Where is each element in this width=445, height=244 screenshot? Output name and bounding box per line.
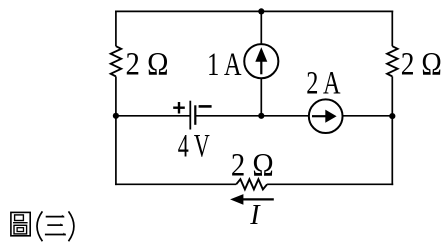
wire: left side upper segment: [115, 11, 117, 47]
svg-text:I: I: [249, 200, 261, 231]
current I arrow (pointing left, below bottom resistor): [230, 194, 274, 205]
svg-text:2 Ω: 2 Ω: [126, 47, 169, 83]
junction dot: top node: [258, 8, 264, 14]
caption: CJK character 三 (three) drawn as strokes: [45, 215, 66, 236]
caption: closing parenthesis: [69, 211, 74, 241]
wire: right side upper segment: [391, 11, 393, 47]
wire: middle rail center segment: [195, 115, 309, 117]
svg-text:1 A: 1 A: [207, 47, 242, 83]
wire: top side of outer loop: [115, 10, 393, 12]
resistor R3 (bottom, 2 ohm) zigzag: [236, 179, 267, 189]
wire: bottom side right segment: [267, 183, 393, 185]
wire: bottom side left segment: [115, 183, 236, 185]
current source I2 arrow (pointing right): [312, 110, 337, 123]
wire: 1A branch upper (from top rail to source): [260, 11, 262, 44]
wire: middle rail right segment: [342, 115, 392, 117]
battery V1 positive plate (long): [189, 101, 191, 130]
svg-text:2 Ω: 2 Ω: [401, 46, 442, 82]
current source I2 (2 A) circle: [309, 99, 343, 133]
caption: opening parenthesis: [37, 211, 42, 241]
wire: right side lower segment: [391, 76, 393, 185]
svg-text:2 A: 2 A: [306, 66, 341, 102]
battery plus sign: [173, 102, 185, 114]
caption: CJK character 圖 (figure) drawn as strokes: [11, 212, 30, 235]
current source I1 (1 A) circle: [244, 44, 278, 78]
battery minus sign: [199, 105, 212, 108]
junction dot: middle-center node: [258, 113, 264, 119]
wire: 1A branch lower (from source to middle rail): [260, 78, 262, 116]
wire: middle rail left segment: [116, 115, 190, 117]
wire: left side lower segment: [115, 76, 117, 185]
junction dot: middle-right node: [389, 113, 395, 119]
svg-text:4 V: 4 V: [178, 128, 210, 164]
junction dot: middle-left node: [113, 113, 119, 119]
current source I1 arrow (pointing up): [255, 47, 267, 74]
resistor R2 (right, 2 ohm) zigzag: [387, 46, 398, 76]
resistor R1 (left, 2 ohm) zigzag: [111, 46, 122, 76]
svg-text:2 Ω: 2 Ω: [231, 147, 274, 183]
battery V1 negative plate (short): [194, 105, 196, 125]
